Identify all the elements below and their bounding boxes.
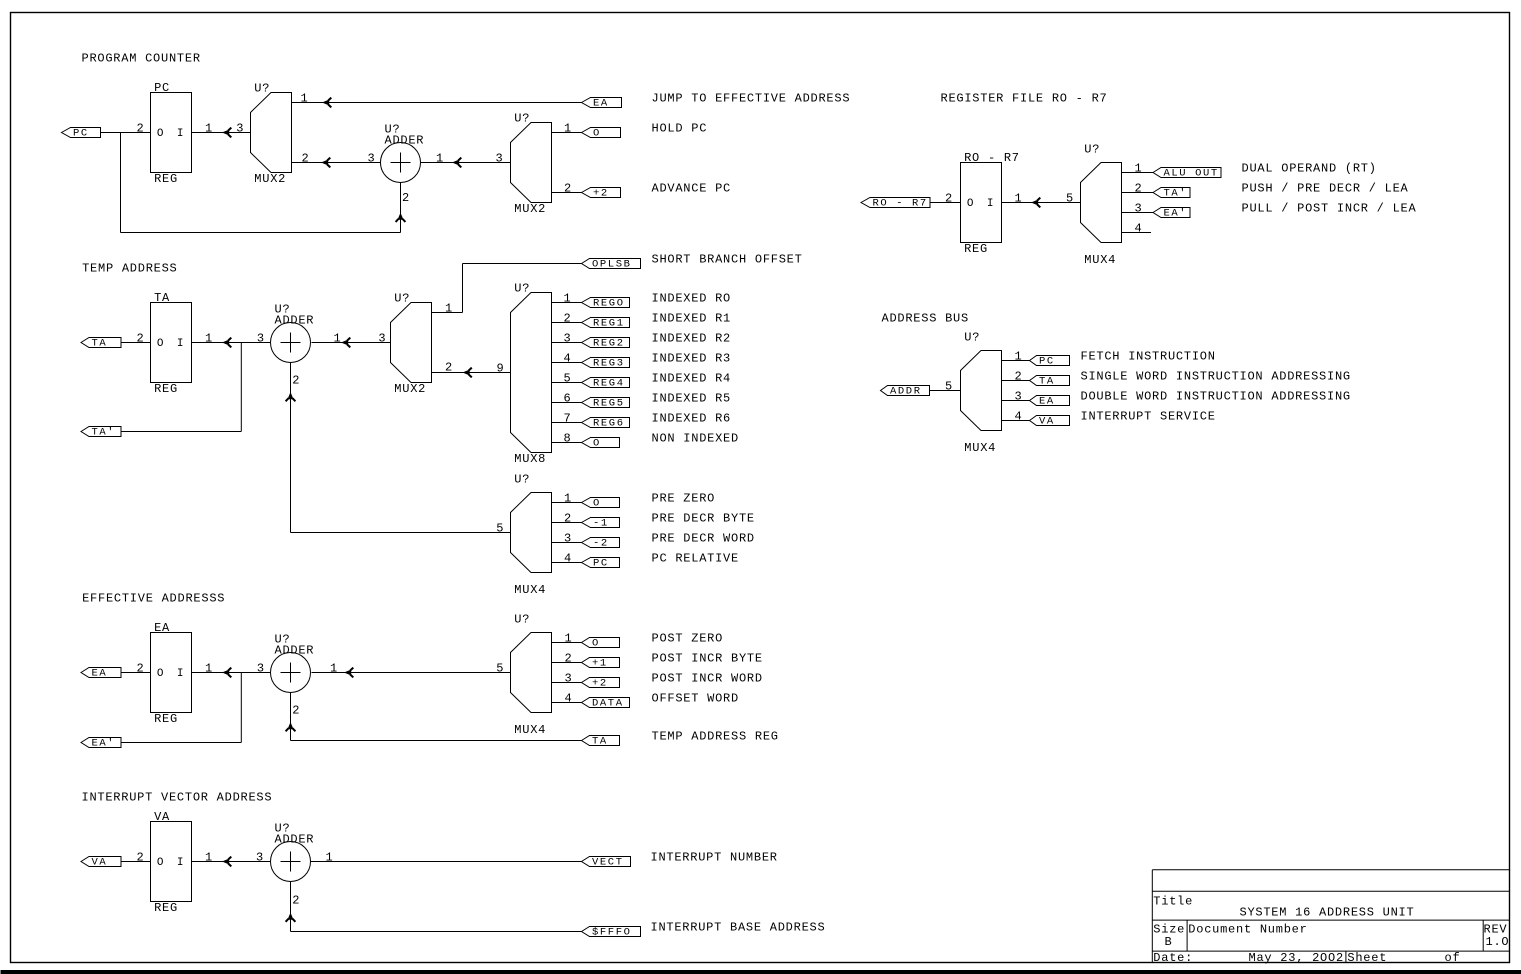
svg-text:O: O [593, 128, 601, 140]
svg-text:REGISTER FILE RO - R7: REGISTER FILE RO - R7 [941, 92, 1108, 106]
svg-text:REG2: REG2 [593, 338, 625, 350]
svg-text:U?: U? [514, 112, 530, 126]
svg-text:NON INDEXED: NON INDEXED [652, 432, 739, 446]
svg-text:POST INCR BYTE: POST INCR BYTE [652, 652, 763, 666]
svg-text:EFFECTIVE ADDRESSS: EFFECTIVE ADDRESSS [82, 592, 225, 606]
svg-text:MUX4: MUX4 [514, 723, 546, 737]
svg-text:I: I [177, 857, 184, 869]
svg-text:FETCH INSTRUCTION: FETCH INSTRUCTION [1081, 350, 1216, 364]
svg-text:3: 3 [564, 332, 572, 346]
svg-text:ALU OUT: ALU OUT [1164, 168, 1219, 180]
svg-text:2: 2 [302, 152, 310, 166]
svg-text:1: 1 [330, 662, 338, 676]
svg-text:1: 1 [564, 492, 572, 506]
svg-text:1: 1 [565, 632, 573, 646]
svg-text:U?: U? [514, 282, 530, 296]
svg-text:Date:: Date: [1153, 951, 1193, 965]
svg-text:3: 3 [236, 122, 244, 136]
svg-text:$FFFO: $FFFO [592, 927, 632, 939]
svg-text:3: 3 [496, 152, 504, 166]
svg-text:MUX2: MUX2 [254, 172, 286, 186]
svg-text:2: 2 [945, 192, 953, 206]
svg-text:EA: EA [1039, 396, 1055, 408]
svg-text:3: 3 [257, 332, 265, 346]
svg-text:2: 2 [565, 652, 573, 666]
svg-text:3: 3 [1015, 390, 1023, 404]
svg-text:INDEXED R4: INDEXED R4 [652, 372, 732, 386]
svg-text:1: 1 [445, 302, 453, 316]
svg-text:O: O [593, 498, 601, 510]
svg-text:4: 4 [564, 552, 572, 566]
svg-text:PULL / POST INCR / LEA: PULL / POST INCR / LEA [1242, 202, 1417, 216]
svg-text:PROGRAM COUNTER: PROGRAM COUNTER [82, 52, 201, 66]
svg-text:3: 3 [257, 662, 265, 676]
svg-text:EA': EA' [92, 738, 116, 750]
svg-text:TA': TA' [92, 427, 116, 439]
svg-text:REG: REG [154, 901, 178, 915]
svg-text:TA: TA [592, 736, 608, 748]
svg-text:DOUBLE WORD INSTRUCTION ADDRES: DOUBLE WORD INSTRUCTION ADDRESSING [1081, 390, 1351, 404]
svg-text:1: 1 [205, 332, 213, 346]
svg-text:1: 1 [301, 92, 309, 106]
svg-text:1: 1 [1015, 350, 1023, 364]
svg-text:INDEXED R1: INDEXED R1 [652, 312, 732, 326]
svg-text:1: 1 [334, 332, 342, 346]
svg-text:ADDER: ADDER [385, 134, 425, 148]
svg-text:2: 2 [137, 332, 145, 346]
svg-text:MUX2: MUX2 [394, 382, 426, 396]
svg-text:PRE ZERO: PRE ZERO [652, 492, 716, 506]
svg-text:I: I [177, 128, 184, 140]
svg-text:REG1: REG1 [593, 318, 625, 330]
svg-text:+1: +1 [592, 658, 608, 670]
svg-text:2: 2 [564, 312, 572, 326]
svg-text:ADDRESS BUS: ADDRESS BUS [882, 312, 969, 326]
svg-text:MUX4: MUX4 [964, 441, 996, 455]
svg-text:INDEXED R3: INDEXED R3 [652, 352, 732, 366]
svg-text:Document Number: Document Number [1188, 923, 1307, 937]
svg-text:TA: TA [92, 338, 108, 350]
svg-text:3: 3 [256, 851, 264, 865]
svg-text:REGO: REGO [593, 298, 625, 310]
svg-text:2: 2 [402, 191, 410, 205]
svg-text:O: O [593, 438, 601, 450]
svg-text:MUX4: MUX4 [514, 583, 546, 597]
svg-text:Sheet: Sheet [1347, 951, 1387, 965]
svg-text:TA: TA [1039, 376, 1055, 388]
svg-text:PC: PC [593, 558, 609, 570]
svg-text:REG6: REG6 [593, 418, 625, 430]
svg-text:1: 1 [205, 662, 213, 676]
svg-text:VECT: VECT [592, 857, 624, 869]
svg-text:2: 2 [292, 704, 300, 718]
svg-text:1: 1 [205, 851, 213, 865]
svg-text:OFFSET WORD: OFFSET WORD [652, 692, 739, 706]
svg-text:5: 5 [945, 380, 953, 394]
svg-text:1: 1 [205, 122, 213, 136]
svg-text:REG: REG [154, 382, 178, 396]
svg-text:O: O [157, 668, 164, 680]
svg-text:SINGLE WORD INSTRUCTION ADDRES: SINGLE WORD INSTRUCTION ADDRESSING [1081, 370, 1351, 384]
svg-text:6: 6 [564, 392, 572, 406]
svg-text:PC: PC [154, 81, 170, 95]
svg-text:2: 2 [564, 512, 572, 526]
svg-text:4: 4 [564, 352, 572, 366]
svg-text:PC RELATIVE: PC RELATIVE [652, 552, 739, 566]
svg-text:TA': TA' [1164, 188, 1188, 200]
svg-text:MUX2: MUX2 [514, 202, 546, 216]
svg-text:INTERRUPT NUMBER: INTERRUPT NUMBER [651, 851, 778, 865]
svg-text:O: O [157, 128, 164, 140]
svg-text:PC: PC [73, 128, 89, 140]
svg-text:ADVANCE PC: ADVANCE PC [652, 182, 732, 196]
svg-text:5: 5 [564, 372, 572, 386]
svg-text:REG5: REG5 [593, 398, 625, 410]
svg-text:POST INCR WORD: POST INCR WORD [652, 672, 763, 686]
svg-text:PRE DECR WORD: PRE DECR WORD [652, 532, 755, 546]
svg-text:PC: PC [1039, 356, 1055, 368]
svg-text:SHORT BRANCH OFFSET: SHORT BRANCH OFFSET [652, 253, 803, 267]
svg-text:1: 1 [1135, 162, 1143, 176]
svg-text:MUX8: MUX8 [514, 452, 546, 466]
svg-text:2: 2 [564, 182, 572, 196]
svg-text:REG: REG [964, 242, 988, 256]
svg-text:7: 7 [564, 412, 572, 426]
svg-text:EA: EA [154, 621, 170, 635]
svg-text:2: 2 [137, 851, 145, 865]
svg-text:VA: VA [1039, 416, 1055, 428]
svg-text:ADDER: ADDER [275, 644, 315, 658]
svg-text:-2: -2 [593, 538, 609, 550]
svg-text:SYSTEM 16 ADDRESS UNIT: SYSTEM 16 ADDRESS UNIT [1240, 906, 1415, 920]
svg-text:HOLD PC: HOLD PC [652, 122, 708, 136]
svg-text:3: 3 [368, 152, 376, 166]
svg-text:INTERRUPT BASE ADDRESS: INTERRUPT BASE ADDRESS [651, 921, 826, 935]
svg-text:OPLSB: OPLSB [592, 259, 632, 271]
svg-text:O: O [592, 638, 600, 650]
svg-text:INDEXED R5: INDEXED R5 [652, 392, 732, 406]
svg-text:REG: REG [154, 712, 178, 726]
svg-text:4: 4 [565, 692, 573, 706]
svg-text:of: of [1445, 951, 1461, 965]
svg-text:VA: VA [154, 810, 170, 824]
svg-text:1: 1 [1015, 192, 1023, 206]
svg-text:JUMP TO EFFECTIVE ADDRESS: JUMP TO EFFECTIVE ADDRESS [652, 92, 851, 106]
svg-text:INDEXED RO: INDEXED RO [652, 292, 732, 306]
svg-text:MUX4: MUX4 [1084, 253, 1116, 267]
svg-text:2: 2 [292, 374, 300, 388]
svg-text:2: 2 [137, 122, 145, 136]
svg-text:INTERRUPT SERVICE: INTERRUPT SERVICE [1081, 410, 1216, 424]
svg-text:1.O: 1.O [1486, 935, 1510, 949]
svg-text:ADDER: ADDER [275, 314, 315, 328]
svg-text:2: 2 [137, 662, 145, 676]
svg-text:+2: +2 [592, 678, 608, 690]
svg-text:DUAL OPERAND (RT): DUAL OPERAND (RT) [1242, 162, 1377, 176]
svg-text:+2: +2 [593, 188, 609, 200]
svg-text:1: 1 [564, 122, 572, 136]
svg-text:3: 3 [1135, 202, 1143, 216]
svg-text:1: 1 [326, 851, 334, 865]
svg-text:U?: U? [394, 292, 410, 306]
svg-text:PUSH / PRE DECR / LEA: PUSH / PRE DECR / LEA [1242, 182, 1409, 196]
svg-text:I: I [987, 198, 994, 210]
svg-text:ADDER: ADDER [275, 833, 315, 847]
svg-text:RO - R7: RO - R7 [964, 151, 1020, 165]
svg-text:TEMP ADDRESS: TEMP ADDRESS [82, 262, 177, 276]
svg-text:-1: -1 [593, 518, 609, 530]
svg-text:3: 3 [564, 532, 572, 546]
svg-text:8: 8 [564, 432, 572, 446]
svg-text:EA': EA' [1164, 208, 1188, 220]
svg-text:3: 3 [565, 672, 573, 686]
svg-text:1: 1 [564, 292, 572, 306]
svg-text:DATA: DATA [592, 698, 624, 710]
svg-text:U?: U? [514, 613, 530, 627]
svg-text:O: O [157, 857, 164, 869]
svg-text:INDEXED R2: INDEXED R2 [652, 332, 732, 346]
svg-text:May 23, 2OO2: May 23, 2OO2 [1249, 951, 1344, 965]
svg-text:2: 2 [292, 894, 300, 908]
svg-text:INTERRUPT VECTOR ADDRESS: INTERRUPT VECTOR ADDRESS [82, 791, 273, 805]
svg-text:2: 2 [1015, 370, 1023, 384]
svg-text:U?: U? [254, 82, 270, 96]
svg-text:O: O [967, 198, 974, 210]
svg-text:TEMP ADDRESS REG: TEMP ADDRESS REG [652, 730, 779, 744]
svg-text:I: I [177, 668, 184, 680]
svg-text:POST ZERO: POST ZERO [652, 632, 724, 646]
svg-text:INDEXED R6: INDEXED R6 [652, 412, 732, 426]
svg-text:3: 3 [378, 332, 386, 346]
svg-text:I: I [177, 338, 184, 350]
svg-text:4: 4 [1015, 410, 1023, 424]
svg-text:VA: VA [92, 857, 108, 869]
svg-text:9: 9 [497, 362, 505, 376]
svg-text:5: 5 [496, 522, 504, 536]
svg-text:U?: U? [1084, 143, 1100, 157]
svg-text:PRE DECR BYTE: PRE DECR BYTE [652, 512, 755, 526]
svg-text:TA: TA [154, 291, 170, 305]
svg-text:ADDR: ADDR [890, 386, 922, 398]
svg-text:EA: EA [593, 98, 609, 110]
svg-text:2: 2 [1135, 182, 1143, 196]
svg-text:5: 5 [1066, 192, 1074, 206]
svg-text:U?: U? [964, 331, 980, 345]
svg-text:REG3: REG3 [593, 358, 625, 370]
svg-text:O: O [157, 338, 164, 350]
svg-text:Title: Title [1153, 894, 1193, 908]
svg-text:U?: U? [514, 473, 530, 487]
svg-text:5: 5 [496, 662, 504, 676]
svg-text:1: 1 [436, 152, 444, 166]
svg-text:RO - R7: RO - R7 [873, 198, 928, 210]
svg-text:REG: REG [154, 172, 178, 186]
svg-text:REG4: REG4 [593, 378, 625, 390]
svg-text:4: 4 [1135, 222, 1143, 236]
svg-text:EA: EA [92, 668, 108, 680]
svg-text:B: B [1165, 935, 1173, 949]
